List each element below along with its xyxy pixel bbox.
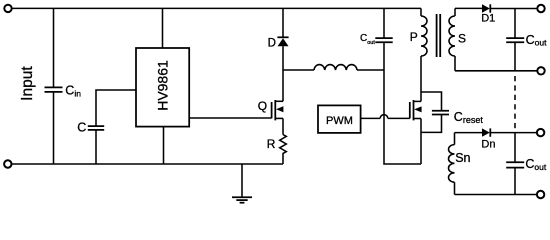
box PWM [318,105,380,132]
wire Sn bottom [455,194,537,196]
transformer primary P [421,8,427,56]
wire top rail [12,7,421,9]
svg-text:HV9861: HV9861 [155,60,171,111]
dashed link [514,76,516,131]
svg-text:PWM: PWM [326,115,353,127]
wire to gate [388,117,410,119]
svg-text:Sn: Sn [455,151,470,165]
terminal input minus [4,160,11,167]
wire bottom rail [11,163,283,165]
svg-text:Q: Q [258,99,267,113]
wire secondary bottom [455,70,537,72]
diode D1 [482,4,537,12]
transformer winding Sn [449,133,455,195]
transformer core [437,14,441,57]
capacitor C_out primary [375,8,421,164]
svg-text:Cout: Cout [525,157,546,172]
inductor L [283,65,384,70]
terminal out1 minus [537,67,544,74]
svg-text:S: S [458,32,466,46]
svg-text:D: D [268,38,276,50]
svg-text:Creset: Creset [454,110,484,125]
transformer secondary S [449,8,455,70]
IC U1 HV9861 [136,8,272,164]
transistor M2 (MOSFET) [410,56,422,164]
svg-text:Cin: Cin [65,84,81,99]
svg-text:P: P [410,30,418,44]
diode D [277,8,288,101]
capacitor C_out top right [506,9,524,71]
wire Sn top [455,132,483,134]
wire secondary top [455,7,482,9]
svg-text:D1: D1 [481,13,495,25]
transistor Q (MOSFET) [272,100,284,135]
terminal out2 minus [537,191,544,198]
capacitor C_in [45,8,63,164]
wire hop over node [380,115,388,119]
svg-text:Cout: Cout [360,33,375,46]
resistor R [280,135,287,165]
terminal out2 plus [537,129,544,136]
capacitor C_reset [421,92,449,132]
svg-text:Input: Input [19,66,36,101]
svg-text:R: R [267,137,276,151]
svg-text:Dn: Dn [481,138,495,150]
capacitor C_out bottom right [506,133,524,195]
terminal out1 plus [537,5,544,12]
diode Dn [482,128,537,136]
terminal input plus [4,5,11,12]
svg-text:Cout: Cout [526,33,547,48]
ground [232,164,252,203]
svg-text:C: C [77,120,86,134]
capacitor C [88,90,136,164]
